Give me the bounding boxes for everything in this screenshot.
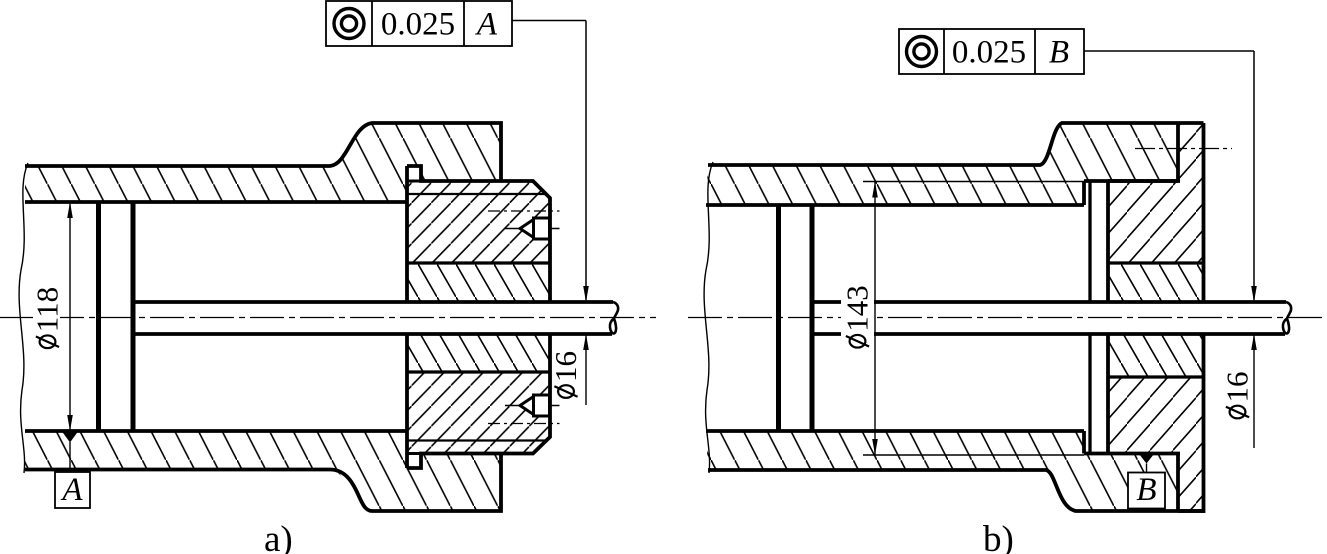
bushing seam upper (a) (407, 261, 550, 264)
datum B box (b) (1128, 473, 1165, 509)
leader from frame A vertical (585, 21, 587, 301)
bushing seam lower (b) (1108, 375, 1204, 378)
piston left face (b) (776, 205, 781, 431)
bleed screw top axis dashdot (a) (488, 210, 560, 212)
rod end break (b) (1283, 302, 1291, 334)
gland plate right edge upper (b) (1202, 123, 1206, 302)
bushing upper band hatch (a) (407, 263, 550, 302)
datum A box (a) (55, 472, 90, 508)
concentricity symbol outer circle (frame B) (907, 37, 937, 67)
extension line phi143 bottom (b) (863, 454, 1084, 456)
datum B triangle (b) (1139, 454, 1154, 464)
bolt axis dashdot (b) (1135, 148, 1232, 150)
gland upper block hatch (a) (407, 194, 550, 263)
gland notch bottom top line (a) (407, 452, 421, 455)
centerline (a) (0, 317, 656, 319)
cylinder body lower wall hatch (a) (25, 431, 501, 511)
frame A divider 2 (463, 1, 465, 46)
arrow phi118 bottom (a) (67, 415, 73, 431)
recess top wall (b) (1082, 181, 1086, 205)
dimension text phi16 (b) (1220, 372, 1255, 419)
datum B leader line (b) (1146, 464, 1148, 473)
dimension text halo phi118 (a) (33, 281, 60, 354)
gland lower block hatch (a) (407, 372, 550, 441)
bleed screw bottom cone (a) (520, 397, 534, 415)
rod top line (a) (133, 300, 613, 304)
gland left edge lower (a) (405, 334, 409, 468)
svg-text:143: 143 (840, 285, 875, 332)
leader from frame B vertical (1253, 51, 1255, 300)
spacer ring left edge lower (b) (1088, 334, 1091, 454)
arrow phi16 (a) (583, 334, 589, 350)
gland sleeve left edge upper (b) (1106, 181, 1110, 302)
svg-text:118: 118 (30, 287, 65, 332)
feature control frame B box (899, 29, 1084, 74)
gland left edge upper (a) (405, 166, 409, 302)
gland flange band bottom hatch (a) (407, 441, 546, 454)
bore top line (a) (25, 200, 407, 204)
concentricity symbol inner circle (frame A) (341, 16, 356, 31)
leader arrow to rod (a) (583, 286, 589, 302)
concentricity symbol outer circle (frame A) (334, 9, 364, 39)
gland flange band line top (a) (407, 193, 546, 195)
break wave line left (a) (19, 163, 28, 473)
cylinder body lower outline (b) (708, 470, 1204, 511)
gland plate and sleeve lower hatch (b) (1108, 377, 1204, 511)
gland step boundary (b) (1176, 123, 1180, 181)
svg-text:0.025: 0.025 (381, 7, 455, 43)
piston right face (b) (810, 205, 815, 431)
rod top line (b) (812, 300, 1286, 304)
gland sleeve top edge (b) (1108, 179, 1178, 183)
bushing seam lower (a) (407, 370, 550, 373)
rod end break (a) (610, 302, 618, 334)
svg-text:a): a) (264, 519, 293, 554)
leader arrow to rod (b) (1251, 286, 1257, 302)
frame A divider 1 (371, 1, 373, 46)
rod bottom line (b) (812, 332, 1285, 336)
cylinder body upper outline (b) (708, 123, 1178, 165)
gland outline top (a) (407, 166, 550, 302)
centerline (b) (688, 317, 1327, 319)
svg-text:B: B (1049, 35, 1069, 71)
recess top line (b) (1084, 179, 1180, 183)
gland plate right edge lower (b) (1202, 334, 1206, 513)
bushing lower band hatch (a) (407, 334, 550, 372)
frame B divider 1 (943, 29, 945, 74)
gland flange band top hatch (a) (407, 181, 546, 194)
frame B divider 2 (1034, 29, 1036, 74)
dimension line phi143 (b) (874, 182, 876, 456)
arrow phi16 (b) (1251, 334, 1257, 350)
bleed screw top center line (a) (505, 228, 560, 230)
bleed screw top head (a) (534, 218, 550, 239)
bore top line (b) (706, 203, 1084, 207)
gland sleeve left edge lower (b) (1106, 334, 1110, 454)
dimension line phi16 (a) (585, 334, 587, 405)
bore bottom line (b) (706, 429, 1084, 433)
datum A triangle (a) (62, 432, 78, 443)
recess bottom line (b) (1084, 452, 1180, 456)
extension line phi143 top (b) (863, 181, 1084, 183)
cylinder body lower wall hatch (b) (706, 431, 1178, 511)
gland notch top bottom line (a) (407, 180, 421, 183)
spacer ring left edge upper (b) (1088, 181, 1091, 302)
bore bottom line (a) (25, 429, 407, 433)
svg-text:16: 16 (548, 351, 583, 382)
dimension text phi16 (a) (548, 351, 583, 398)
bleed screw bottom center line (a) (505, 405, 560, 407)
bushing seam upper (b) (1108, 261, 1204, 264)
dimension line phi118 (a) (69, 202, 71, 431)
rod bottom line (a) (133, 332, 612, 336)
guide bushing upper band hatch (b) (1108, 263, 1204, 302)
bleed screw top cone (a) (520, 220, 534, 238)
arrow phi118 top (a) (67, 202, 73, 218)
gland plate top edge (b) (1178, 121, 1204, 125)
svg-text:B: B (1136, 472, 1156, 508)
cylinder body upper wall hatch (b) (706, 123, 1178, 205)
svg-text:b): b) (983, 519, 1014, 554)
arrow phi143 bottom (b) (872, 439, 878, 455)
svg-text:A: A (475, 7, 498, 43)
leader from frame B horizontal (1084, 50, 1254, 52)
dimension text phi143 (b) (840, 285, 875, 347)
gland flange band line bottom (a) (407, 439, 546, 441)
svg-text:0.025: 0.025 (952, 35, 1026, 71)
feature control frame A box (326, 1, 512, 46)
cylinder body upper wall hatch (a) (25, 123, 501, 202)
datum A leader line (a) (69, 442, 71, 472)
break wave line left (b) (704, 162, 713, 473)
gland plate bottom edge (b) (1178, 509, 1204, 513)
svg-text:A: A (60, 472, 83, 508)
piston right face (a) (131, 202, 136, 431)
dimension text halo phi143 (b) (841, 283, 874, 351)
dimension line phi16 (b) (1253, 334, 1255, 448)
gland plate and sleeve upper hatch (b) (1108, 123, 1204, 263)
bleed screw bottom axis dashdot (a) (488, 423, 560, 425)
recess bottom wall (b) (1082, 431, 1086, 454)
dimension text phi118 (a) (30, 287, 65, 348)
guide bushing lower band hatch (b) (1108, 334, 1204, 377)
piston left face (a) (96, 202, 101, 431)
cylinder body lower outline (a) (25, 454, 501, 512)
cylinder body upper outline (a) (25, 123, 501, 181)
gland lower boundary vertical (b) (1176, 454, 1180, 512)
concentricity symbol inner circle (frame B) (914, 44, 929, 59)
gland outline bottom (a) (407, 334, 550, 468)
leader from frame A horizontal (512, 20, 586, 22)
arrow phi143 top (b) (872, 182, 878, 198)
svg-text:16: 16 (1220, 372, 1255, 403)
bleed screw bottom head (a) (534, 395, 550, 416)
